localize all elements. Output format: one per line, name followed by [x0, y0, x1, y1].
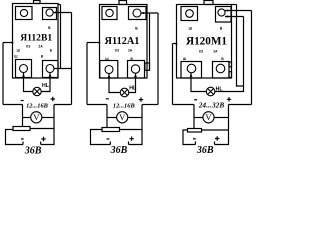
terminal circle U1 top-left [20, 9, 27, 16]
wire B1 vertical to plus rail [71, 13, 73, 105]
terminal side tab U2 bottom-right [145, 63, 150, 70]
wire voltmeter PV3 right lead [214, 117, 228, 119]
wire voltmeter PV2 right lead [128, 117, 142, 119]
battery GB2 plus terminal tick [128, 142, 130, 145]
wire A2 vertical to bottom-right terminal tab [149, 13, 151, 70]
battery GB1 minus terminal tick [22, 142, 24, 145]
lamp HL1 [33, 87, 41, 95]
lamp HL3 [206, 87, 215, 96]
arrow at U1 bottom-left terminal [22, 73, 25, 76]
terminal circle U3 top-right [218, 9, 225, 16]
arrow at U2 bottom-right terminal [134, 74, 137, 77]
terminal circle U3 bottom-left [187, 64, 196, 73]
wire rheostat R1 right lead to plus rail [30, 128, 54, 130]
arrow at U3 top-right lower lead [225, 15, 228, 18]
terminal block U3 bottom-right [213, 62, 230, 79]
terminal block U1 bottom-left [16, 60, 32, 78]
plus sign at test point 2 [139, 97, 143, 101]
wire rheostat R2 right lead to plus rail [120, 129, 143, 131]
svg-text:36В: 36В [110, 145, 128, 155]
svg-text:12...16В: 12...16В [113, 103, 136, 110]
wire voltmeter PV1 left lead [23, 117, 31, 119]
wire minus node down to wiper circuit 2 [106, 105, 108, 128]
wire plus rail segment circuit 2 [142, 104, 158, 106]
terminal circle U2 top-left [106, 9, 113, 16]
battery GB3 minus terminal tick [194, 142, 196, 145]
wire B2 vertical to plus rail [157, 13, 159, 105]
wire plus rail segment circuit 3 [229, 104, 252, 106]
arrow at U3 top-right upper lead [225, 9, 228, 12]
terminal side tab U3 bottom-right lower [229, 72, 232, 78]
arrow at U3 bottom-left terminal [190, 74, 193, 77]
minus sign battery GB3 [193, 138, 196, 139]
plus sign at test point 1 [51, 97, 55, 101]
wire left vertical down [2, 43, 4, 105]
wire plus node down to battery plus [41, 105, 54, 145]
rheostat R1 body [13, 127, 30, 131]
module U1 mounting tab [34, 1, 41, 4]
wire plus node down to battery plus circuit 2 [129, 105, 143, 145]
svg-text:36В: 36В [24, 145, 42, 155]
plus sign battery GB3 [215, 136, 219, 140]
wire left vertical down circuit 3 [172, 44, 174, 105]
wire minus rail left segment circuit 2 [87, 104, 107, 106]
arrow at U1 top-right terminal [53, 11, 56, 14]
minus sign battery GB2 [107, 138, 110, 139]
terminal circle U1 top-right [46, 9, 53, 16]
svg-text:КЗ: КЗ [26, 44, 30, 48]
minus sign battery GB1 [21, 138, 24, 139]
wire voltmeter PV3 left lead [194, 117, 203, 119]
rheostat R2 body [102, 128, 120, 132]
terminal block U2 bottom-right [128, 61, 145, 79]
voltmeter PV3 [203, 112, 214, 123]
svg-text:V: V [119, 112, 126, 122]
wire left vertical down circuit 2 [86, 43, 88, 105]
terminal circle U2 bottom-right [131, 65, 139, 73]
voltmeter PV2 [117, 112, 128, 123]
terminal circle U1 bottom-right [46, 65, 54, 73]
svg-text:2А: 2А [39, 44, 44, 48]
wire U3 left edge stub [173, 43, 177, 45]
svg-text:HL: HL [42, 83, 50, 89]
regulator module U1 body [13, 4, 59, 79]
svg-text:12...16В: 12...16В [26, 103, 49, 110]
junction dot U2 left stub [99, 42, 101, 44]
junction dot U3 left stub [176, 43, 178, 45]
terminal block U1 top-right [43, 8, 57, 20]
plus sign battery GB1 [41, 137, 45, 141]
svg-text:V: V [33, 112, 40, 122]
wire U1 top edge extension [58, 4, 61, 6]
wire rheostat R3 left lead to battery minus [183, 130, 195, 145]
svg-text:Ш: Ш [14, 55, 17, 59]
wire minus node down to wiper circuit 3 [193, 105, 195, 129]
terminal circle U2 bottom-left [105, 66, 113, 74]
wire A3 vertical joining node C3 [237, 5, 244, 87]
wire minus node down to voltmeter and rheostat wiper [22, 105, 24, 127]
svg-text:Ш: Ш [189, 26, 193, 30]
svg-text:КЗ: КЗ [115, 49, 119, 53]
svg-text:36В: 36В [196, 145, 214, 155]
svg-text:КЗ: КЗ [199, 49, 203, 53]
wire C3 vertical to lamp HL3 [215, 17, 244, 92]
wire rheostat R1 left lead to battery minus [6, 130, 24, 145]
terminal block U3 top-left [181, 7, 198, 21]
svg-text:Я120М1: Я120М1 [186, 35, 227, 47]
svg-text:Ш: Ш [105, 57, 108, 61]
battery GB1 plus terminal tick [40, 142, 42, 145]
junction dot U1 left stub [12, 42, 14, 44]
minus sign at test point 2 [106, 98, 109, 99]
wire A1 vertical [60, 5, 62, 69]
regulator module U2 body [100, 5, 148, 79]
lamp HL2 [120, 88, 129, 97]
wire plus node down to battery plus circuit 3 [215, 105, 229, 145]
arrow at U2 bottom-left terminal [108, 74, 111, 77]
module U3 mounting tab [204, 1, 213, 5]
wire minus rail left segment [3, 104, 23, 106]
battery GB2 minus terminal tick [109, 142, 111, 145]
wire voltmeter PV1 right lead [42, 117, 54, 119]
terminal block U1 top-left [16, 7, 33, 20]
terminal circle U2 top-right [133, 9, 141, 17]
svg-text:V: V [205, 112, 212, 122]
terminal circle U3 bottom-right [216, 64, 225, 73]
wire minus rail left segment circuit 3 [173, 104, 195, 106]
terminal block U3 top-right [216, 7, 232, 23]
svg-text:2А: 2А [213, 49, 218, 53]
wire U2 bottom-right terminal down to lamp HL2 [129, 73, 136, 93]
wire B3 vertical to plus rail [251, 11, 253, 105]
svg-text:HL: HL [216, 87, 224, 93]
wire U2 left edge stub [87, 42, 100, 44]
regulator module U3 body [177, 5, 232, 79]
rheostat R3 body [188, 129, 202, 133]
wire U3 top-right upper lead to node B3 [225, 10, 252, 12]
svg-text:Ш: Ш [183, 57, 186, 61]
voltmeter PV1 [31, 112, 42, 123]
wire U1 left edge stub [3, 42, 13, 44]
module U2 mounting tab [119, 1, 127, 5]
terminal block U2 top-right [129, 7, 147, 20]
terminal block U2 top-left [102, 7, 117, 20]
wire rheostat R3 right lead to plus rail [202, 129, 229, 131]
plus sign battery GB2 [129, 137, 133, 141]
arrow at U2 top-right terminal [141, 12, 144, 15]
svg-text:24...32В: 24...32В [198, 102, 225, 110]
wire U1 bottom-right terminal down to lamp HL1 [41, 73, 50, 92]
minus sign at test point 3 [194, 99, 197, 100]
wire U3 top edge extension [232, 4, 237, 6]
terminal block U2 bottom-left [100, 61, 118, 79]
svg-text:HL: HL [129, 85, 137, 91]
battery GB3 plus terminal tick [214, 142, 216, 145]
wire U3 top-right lower lead to node C3 [225, 16, 244, 18]
minus sign at test point 1 [21, 100, 24, 101]
wire U1 bottom-left terminal down to lamp HL1 [24, 73, 33, 92]
svg-text:Я112В1: Я112В1 [20, 32, 52, 43]
wire voltmeter PV2 left lead [107, 117, 117, 119]
terminal side tab U3 bottom-right upper [229, 62, 232, 67]
terminal block U1 bottom-right [43, 61, 59, 78]
wire U1 top-right terminal to node B1 [53, 12, 71, 14]
wire U1 bottom-right terminal to node B1 [54, 68, 72, 70]
svg-text:Я112А1: Я112А1 [105, 36, 140, 47]
wire plus rail segment [54, 104, 72, 106]
wire U3 bottom-left terminal down to lamp HL3 [191, 73, 206, 92]
wire U2 bottom-left terminal down to lamp HL2 [109, 74, 120, 93]
plus sign at test point 3 [227, 97, 231, 101]
terminal circle U1 bottom-left [20, 65, 28, 73]
wire rheostat R2 left lead to battery minus [91, 130, 111, 145]
arrow at U1 bottom-right terminal [49, 73, 52, 76]
svg-text:2А: 2А [128, 49, 133, 53]
terminal block U3 bottom-left [181, 62, 202, 79]
svg-text:Ш: Ш [17, 49, 20, 53]
wire U2 top-right terminal to node B2 [141, 12, 159, 14]
terminal circle U3 top-left [186, 10, 194, 18]
